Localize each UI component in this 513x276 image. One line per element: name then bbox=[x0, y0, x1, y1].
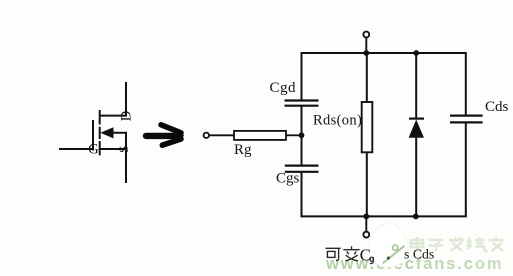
wire top rail to Rds(on) bbox=[366, 53, 368, 102]
wire drain connect bbox=[100, 82, 126, 116]
node junction top diode bbox=[413, 50, 419, 56]
resistor Rds(on) bbox=[362, 102, 373, 152]
svg-text:Rg: Rg bbox=[234, 142, 252, 158]
diode D1 anode triangle bbox=[409, 120, 424, 138]
caption 可变 (hand-drawn hanzi) bbox=[326, 246, 360, 261]
wire top rail to diode cathode bbox=[415, 53, 417, 119]
wire left branch vertical bbox=[301, 53, 303, 216]
wire top rail to Cds bbox=[465, 53, 467, 116]
node junction top Rds bbox=[363, 50, 369, 56]
svg-text:D: D bbox=[118, 111, 134, 121]
可 bbox=[326, 247, 341, 249]
svg-text:C: C bbox=[360, 245, 371, 264]
node drain terminal bbox=[363, 32, 369, 38]
wire bottom rail bbox=[301, 215, 467, 217]
node junction bottom diode bbox=[413, 214, 419, 220]
烧 bbox=[467, 241, 472, 247]
capacitor Cds bbox=[450, 116, 483, 123]
变 bbox=[343, 249, 359, 251]
wire Rg to gate node bbox=[286, 134, 302, 136]
node input terminal bbox=[204, 133, 209, 138]
seed dot on logo stem bbox=[387, 257, 390, 260]
wire diode anode to bottom rail bbox=[415, 138, 417, 217]
子 bbox=[429, 239, 444, 241]
wire input to Rg bbox=[209, 134, 234, 136]
电 bbox=[411, 240, 424, 247]
wire bulk/source connect bbox=[112, 133, 126, 149]
watermark logo leaf bbox=[369, 222, 408, 268]
wire gate lead bbox=[59, 148, 93, 150]
node gate junction bbox=[299, 132, 305, 138]
友 bbox=[489, 239, 504, 241]
svg-text:Cgd: Cgd bbox=[270, 80, 297, 96]
svg-text:Cds: Cds bbox=[485, 99, 509, 115]
watermark hanzi 电子发烧友 (light) bbox=[411, 237, 504, 251]
big arrow symbol bbox=[146, 125, 181, 145]
transistor Q1 (MOSFET symbol) bbox=[59, 82, 126, 183]
wire top rail bbox=[301, 52, 467, 54]
svg-text:S: S bbox=[116, 146, 131, 153]
channel (dashed) bbox=[99, 110, 101, 125]
wire source terminal stem bbox=[365, 216, 367, 231]
svg-text:Rds(on): Rds(on) bbox=[313, 113, 362, 129]
发 bbox=[449, 239, 464, 241]
wire Cds to bottom rail bbox=[465, 122, 467, 216]
svg-text:Cgs: Cgs bbox=[276, 171, 300, 187]
big arrow tip bbox=[177, 129, 185, 143]
svg-text:G: G bbox=[88, 142, 99, 158]
resistor Rg bbox=[234, 131, 286, 140]
wire source connect bbox=[100, 149, 126, 183]
arrow of MOSFET body bbox=[100, 127, 113, 138]
node junction bottom Rds bbox=[363, 214, 369, 220]
node source terminal bbox=[363, 232, 369, 238]
diode D1 cathode bar bbox=[409, 117, 424, 119]
svg-text:s Cds: s Cds bbox=[404, 246, 434, 261]
gate bar bbox=[92, 120, 94, 151]
capacitor Cgs bbox=[285, 166, 319, 172]
capacitor Cgd bbox=[285, 101, 319, 106]
fragment of hidden subscript g (caption Cgd) bbox=[370, 257, 374, 264]
wire Rds(on) to bottom rail bbox=[366, 152, 368, 216]
wire drain terminal stem bbox=[365, 38, 367, 53]
